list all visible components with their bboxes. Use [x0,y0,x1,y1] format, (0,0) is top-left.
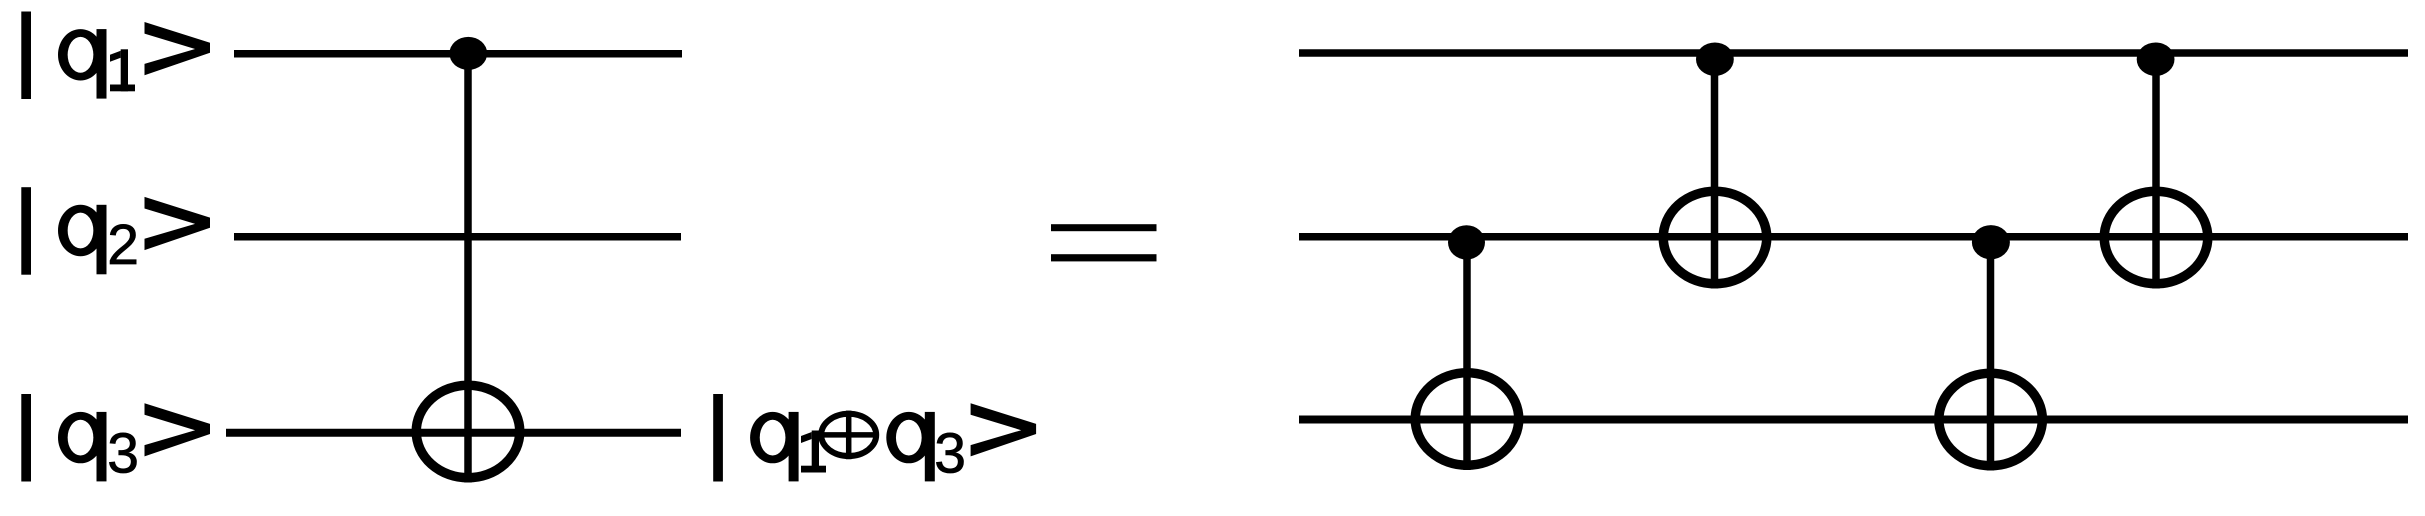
svg-text:3: 3 [934,421,966,485]
svg-text:3: 3 [107,421,139,485]
svg-text:2: 2 [107,213,139,277]
